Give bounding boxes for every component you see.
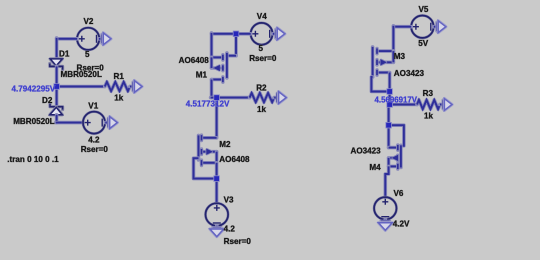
svg-text:4.5696917V: 4.5696917V: [375, 95, 418, 104]
svg-text:AO6408: AO6408: [219, 155, 250, 164]
svg-text:5: 5: [85, 50, 90, 59]
svg-text:.tran 0 10 0 .1: .tran 0 10 0 .1: [7, 155, 59, 164]
svg-text:4.2V: 4.2V: [393, 220, 410, 229]
svg-text:5: 5: [259, 44, 264, 53]
svg-text:AO6408: AO6408: [179, 56, 210, 65]
svg-text:M1: M1: [196, 71, 208, 80]
svg-text:M2: M2: [219, 140, 231, 149]
svg-text:Rser=0: Rser=0: [224, 237, 252, 246]
svg-text:MBR0520L: MBR0520L: [61, 70, 102, 79]
svg-text:V5: V5: [419, 5, 429, 14]
svg-text:1k: 1k: [257, 105, 267, 114]
svg-text:Rser=0: Rser=0: [81, 145, 109, 154]
svg-text:D2: D2: [42, 96, 53, 105]
svg-text:V4: V4: [257, 12, 267, 21]
svg-text:AO3423: AO3423: [351, 147, 382, 156]
svg-text:R1: R1: [114, 72, 125, 81]
svg-text:M4: M4: [369, 163, 381, 172]
svg-text:R3: R3: [423, 89, 434, 98]
svg-text:4.5177312V: 4.5177312V: [186, 99, 230, 108]
svg-text:R2: R2: [256, 84, 267, 93]
svg-text:MBR0520L: MBR0520L: [13, 117, 54, 126]
svg-text:D1: D1: [59, 49, 70, 58]
svg-text:4.2: 4.2: [224, 224, 236, 233]
svg-text:1k: 1k: [424, 111, 434, 120]
svg-text:4.7942295V: 4.7942295V: [12, 84, 56, 93]
svg-text:V1: V1: [88, 101, 98, 110]
svg-text:V3: V3: [224, 196, 234, 205]
svg-text:5V: 5V: [418, 39, 429, 48]
svg-text:AO3423: AO3423: [394, 69, 425, 78]
svg-text:1k: 1k: [114, 94, 124, 103]
svg-text:4.2: 4.2: [88, 136, 100, 145]
svg-text:Rser=0: Rser=0: [249, 54, 277, 63]
svg-text:M3: M3: [394, 52, 406, 61]
svg-text:V2: V2: [84, 17, 94, 26]
svg-text:V6: V6: [394, 189, 404, 198]
